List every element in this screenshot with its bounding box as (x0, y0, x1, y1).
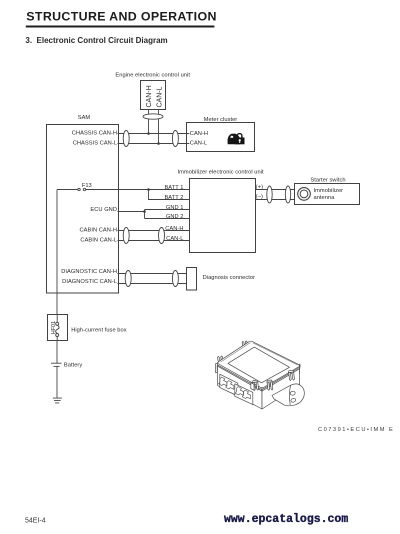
wire fuse to battery (56, 341, 58, 364)
connector socket left (220, 374, 238, 396)
svg-text:CABIN CAN-H: CABIN CAN-H (79, 227, 117, 233)
wire BATT1 feed with F13 fuse gap (57, 189, 190, 191)
svg-text:BATT 2: BATT 2 (164, 195, 183, 201)
wire chassis CAN-H (118, 133, 190, 135)
connector oval diagnostic left (125, 271, 131, 287)
clip left-edge (216, 363, 221, 372)
immobilizer antenna coil outer (298, 188, 311, 201)
wire chassis CAN-L (118, 143, 190, 145)
svg-text:CABIN CAN-L: CABIN CAN-L (80, 237, 117, 243)
fuse HF01 element (56, 315, 59, 341)
junction dot CAN-L bus (157, 142, 160, 145)
mounting bracket (272, 384, 304, 406)
wire diagnostic CAN-H (118, 273, 187, 275)
svg-text:CAN-L: CAN-L (166, 236, 183, 242)
svg-text:GND 1: GND 1 (166, 205, 184, 211)
wire GND 2 (145, 218, 190, 220)
svg-text:Engine electronic control unit: Engine electronic control unit (115, 73, 190, 79)
immobilizer antenna coil inner (300, 190, 308, 198)
rim clip front corner (267, 380, 274, 390)
starter switch box (295, 184, 360, 205)
battery (51, 362, 62, 364)
connector oval antenna left (267, 186, 272, 203)
connector oval antenna right (285, 186, 290, 203)
wire ECU GND (118, 211, 145, 213)
rim clip right (288, 370, 295, 380)
svg-text:Meter cluster: Meter cluster (204, 117, 238, 123)
svg-text:SAM: SAM (78, 115, 91, 121)
svg-text:CAN-L: CAN-L (190, 141, 207, 147)
svg-text:High-current fuse box: High-current fuse box (71, 328, 127, 334)
svg-text:GND 2: GND 2 (166, 214, 184, 220)
svg-text:ECU GND: ECU GND (90, 207, 117, 213)
junction dot ECU GND (143, 210, 146, 213)
wire diagnostic CAN-L (118, 283, 187, 285)
engine electronic control unit box (141, 81, 166, 110)
high-current fuse box (48, 315, 68, 341)
svg-text:C07391•ECU•IMM E: C07391•ECU•IMM E (318, 427, 394, 433)
clip back-right near C (294, 363, 300, 374)
svg-text:CAN-H: CAN-H (165, 226, 183, 232)
SAM box (47, 125, 119, 294)
svg-text:Immobilizer: Immobilizer (314, 188, 344, 194)
wire battery to ground (56, 366, 58, 398)
ground (53, 398, 62, 403)
clip back-left near B (242, 341, 250, 353)
wire GND 1 (145, 209, 190, 211)
junction dot CAN-H bus (147, 132, 150, 135)
wire battery feed vertical (56, 190, 58, 315)
top face (218, 341, 300, 387)
lid inset (228, 347, 290, 383)
right face (262, 365, 300, 409)
svg-text:Diagnosis connector: Diagnosis connector (203, 275, 256, 281)
svg-text:DIAGNOSTIC CAN-L: DIAGNOSTIC CAN-L (62, 279, 117, 285)
svg-text:F13: F13 (82, 183, 92, 189)
rim double lines (218, 365, 300, 391)
meter cluster box (187, 123, 255, 152)
diagnosis connector box (187, 268, 197, 291)
wire engine CAN-H drop (148, 110, 150, 134)
wire GND branch vertical (144, 210, 146, 219)
svg-text:3. Electronic Control Circuit: 3. Electronic Control Circuit Diagram (25, 36, 167, 45)
connector oval diagnostic right (172, 271, 178, 287)
svg-text:CAN-L: CAN-L (156, 86, 163, 107)
immobilizer warning icon (car with padlock) (228, 134, 245, 145)
clip back-right mid (262, 352, 268, 363)
connector oval chassis left (123, 131, 129, 147)
latch between connectors (251, 383, 254, 391)
fuse F13 terminal circles (78, 188, 80, 190)
wire antenna plus (256, 189, 295, 191)
wire cabin CAN-L (118, 240, 190, 242)
svg-text:54EI-4: 54EI-4 (25, 517, 46, 524)
wire BATT2 branch (149, 190, 190, 200)
wire antenna minus (256, 199, 295, 201)
clip back-left near A (217, 356, 225, 368)
back parting lines (221, 343, 298, 365)
svg-text:Battery: Battery (64, 362, 82, 368)
connector oval cabin left (123, 228, 129, 244)
svg-text:CAN-H: CAN-H (190, 131, 208, 137)
svg-text:antenna: antenna (314, 195, 336, 201)
svg-text:Immobilizer electronic control: Immobilizer electronic control unit (178, 169, 265, 175)
junction dot BATT2 branch (147, 188, 150, 191)
immobilizer electronic control unit box (190, 179, 256, 253)
connector socket right (235, 384, 253, 405)
svg-text:Starter switch: Starter switch (310, 178, 345, 184)
wire cabin CAN-H (118, 230, 190, 232)
svg-text:CHASSIS CAN-L: CHASSIS CAN-L (73, 140, 117, 146)
connector oval chassis right (172, 131, 178, 147)
svg-text:STRUCTURE AND OPERATION: STRUCTURE AND OPERATION (26, 9, 216, 23)
svg-text:CAN-H: CAN-H (146, 85, 153, 107)
rim clip front-left (252, 380, 259, 390)
svg-text:www.epcatalogs.com: www.epcatalogs.com (224, 513, 348, 526)
wire engine CAN-L drop (158, 110, 160, 144)
connector oval on engine drops (143, 114, 163, 119)
connector oval cabin right (159, 228, 165, 244)
svg-text:BATT 1: BATT 1 (164, 185, 183, 191)
svg-text:CHASSIS CAN-H: CHASSIS CAN-H (72, 130, 117, 136)
front-left face (218, 363, 263, 410)
svg-text:DIAGNOSTIC CAN-H: DIAGNOSTIC CAN-H (61, 269, 117, 275)
